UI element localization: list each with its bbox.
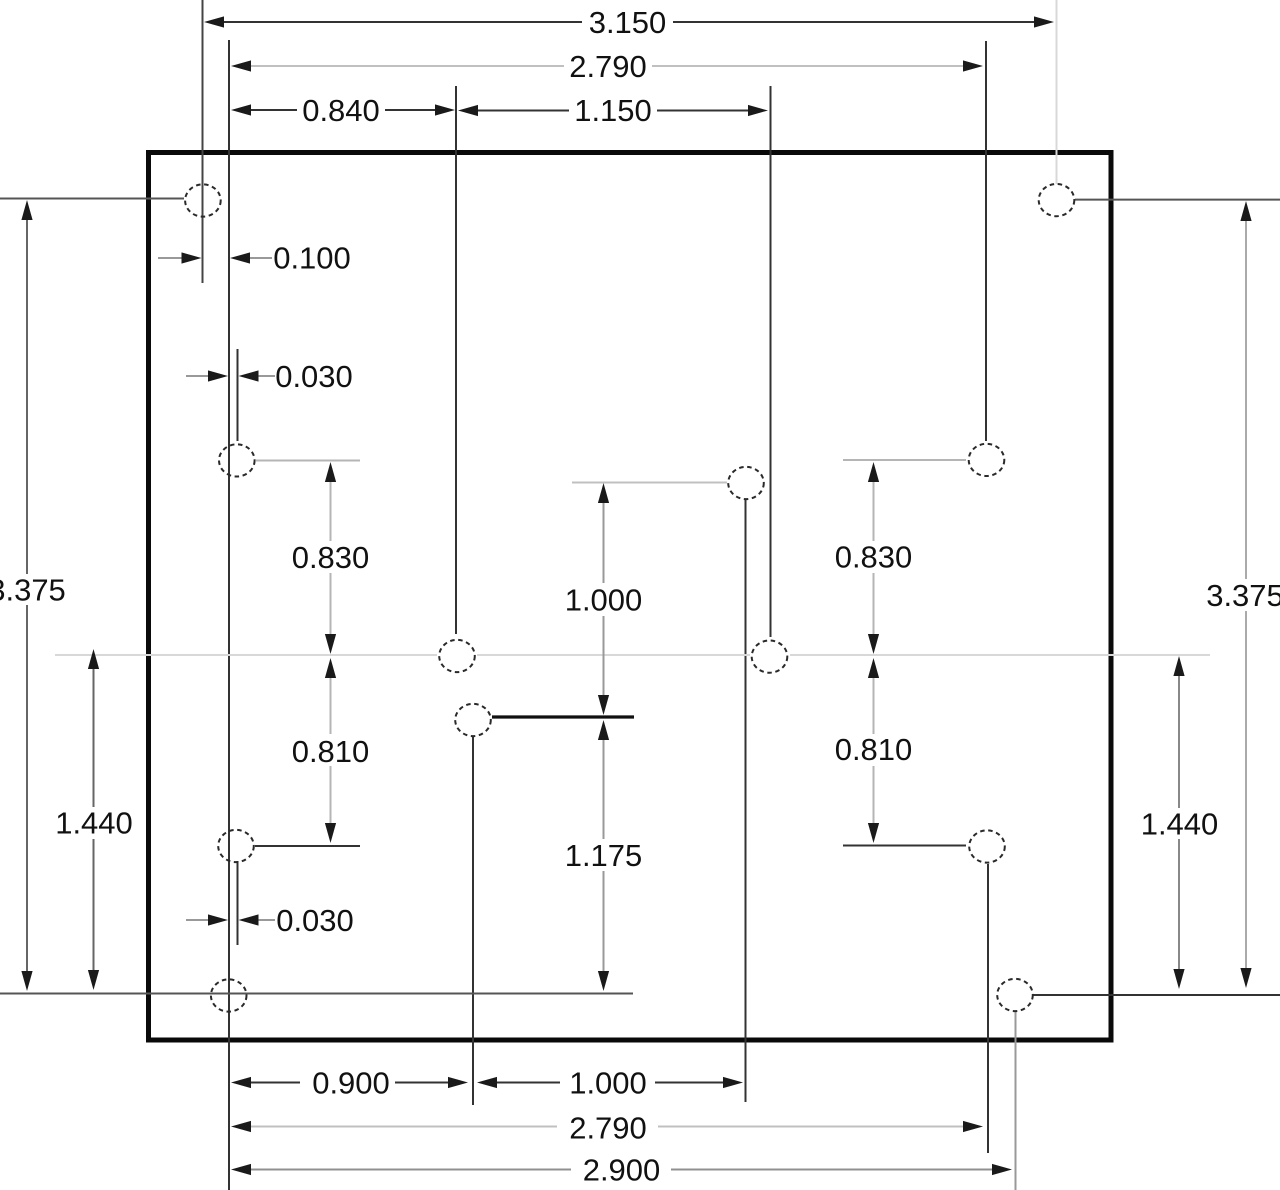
svg-text:0.100: 0.100 bbox=[273, 241, 351, 276]
svg-text:2.790: 2.790 bbox=[569, 1111, 647, 1146]
svg-text:0.900: 0.900 bbox=[312, 1066, 390, 1101]
svg-text:0.840: 0.840 bbox=[302, 93, 380, 128]
svg-text:2.900: 2.900 bbox=[583, 1153, 661, 1188]
svg-text:3.375: 3.375 bbox=[0, 573, 66, 608]
svg-text:0.830: 0.830 bbox=[835, 540, 913, 575]
svg-text:1.440: 1.440 bbox=[1141, 807, 1219, 842]
svg-text:2.790: 2.790 bbox=[569, 49, 647, 84]
svg-text:0.810: 0.810 bbox=[292, 734, 370, 769]
svg-text:0.030: 0.030 bbox=[275, 359, 353, 394]
svg-text:1.440: 1.440 bbox=[55, 806, 133, 841]
svg-text:1.000: 1.000 bbox=[569, 1066, 647, 1101]
svg-text:0.830: 0.830 bbox=[292, 540, 370, 575]
svg-text:1.175: 1.175 bbox=[565, 838, 643, 873]
svg-text:1.150: 1.150 bbox=[574, 93, 652, 128]
svg-text:1.000: 1.000 bbox=[565, 583, 643, 618]
svg-text:0.810: 0.810 bbox=[835, 732, 913, 767]
svg-text:0.030: 0.030 bbox=[276, 903, 354, 938]
svg-text:3.375: 3.375 bbox=[1206, 578, 1280, 613]
svg-text:3.150: 3.150 bbox=[589, 5, 667, 40]
